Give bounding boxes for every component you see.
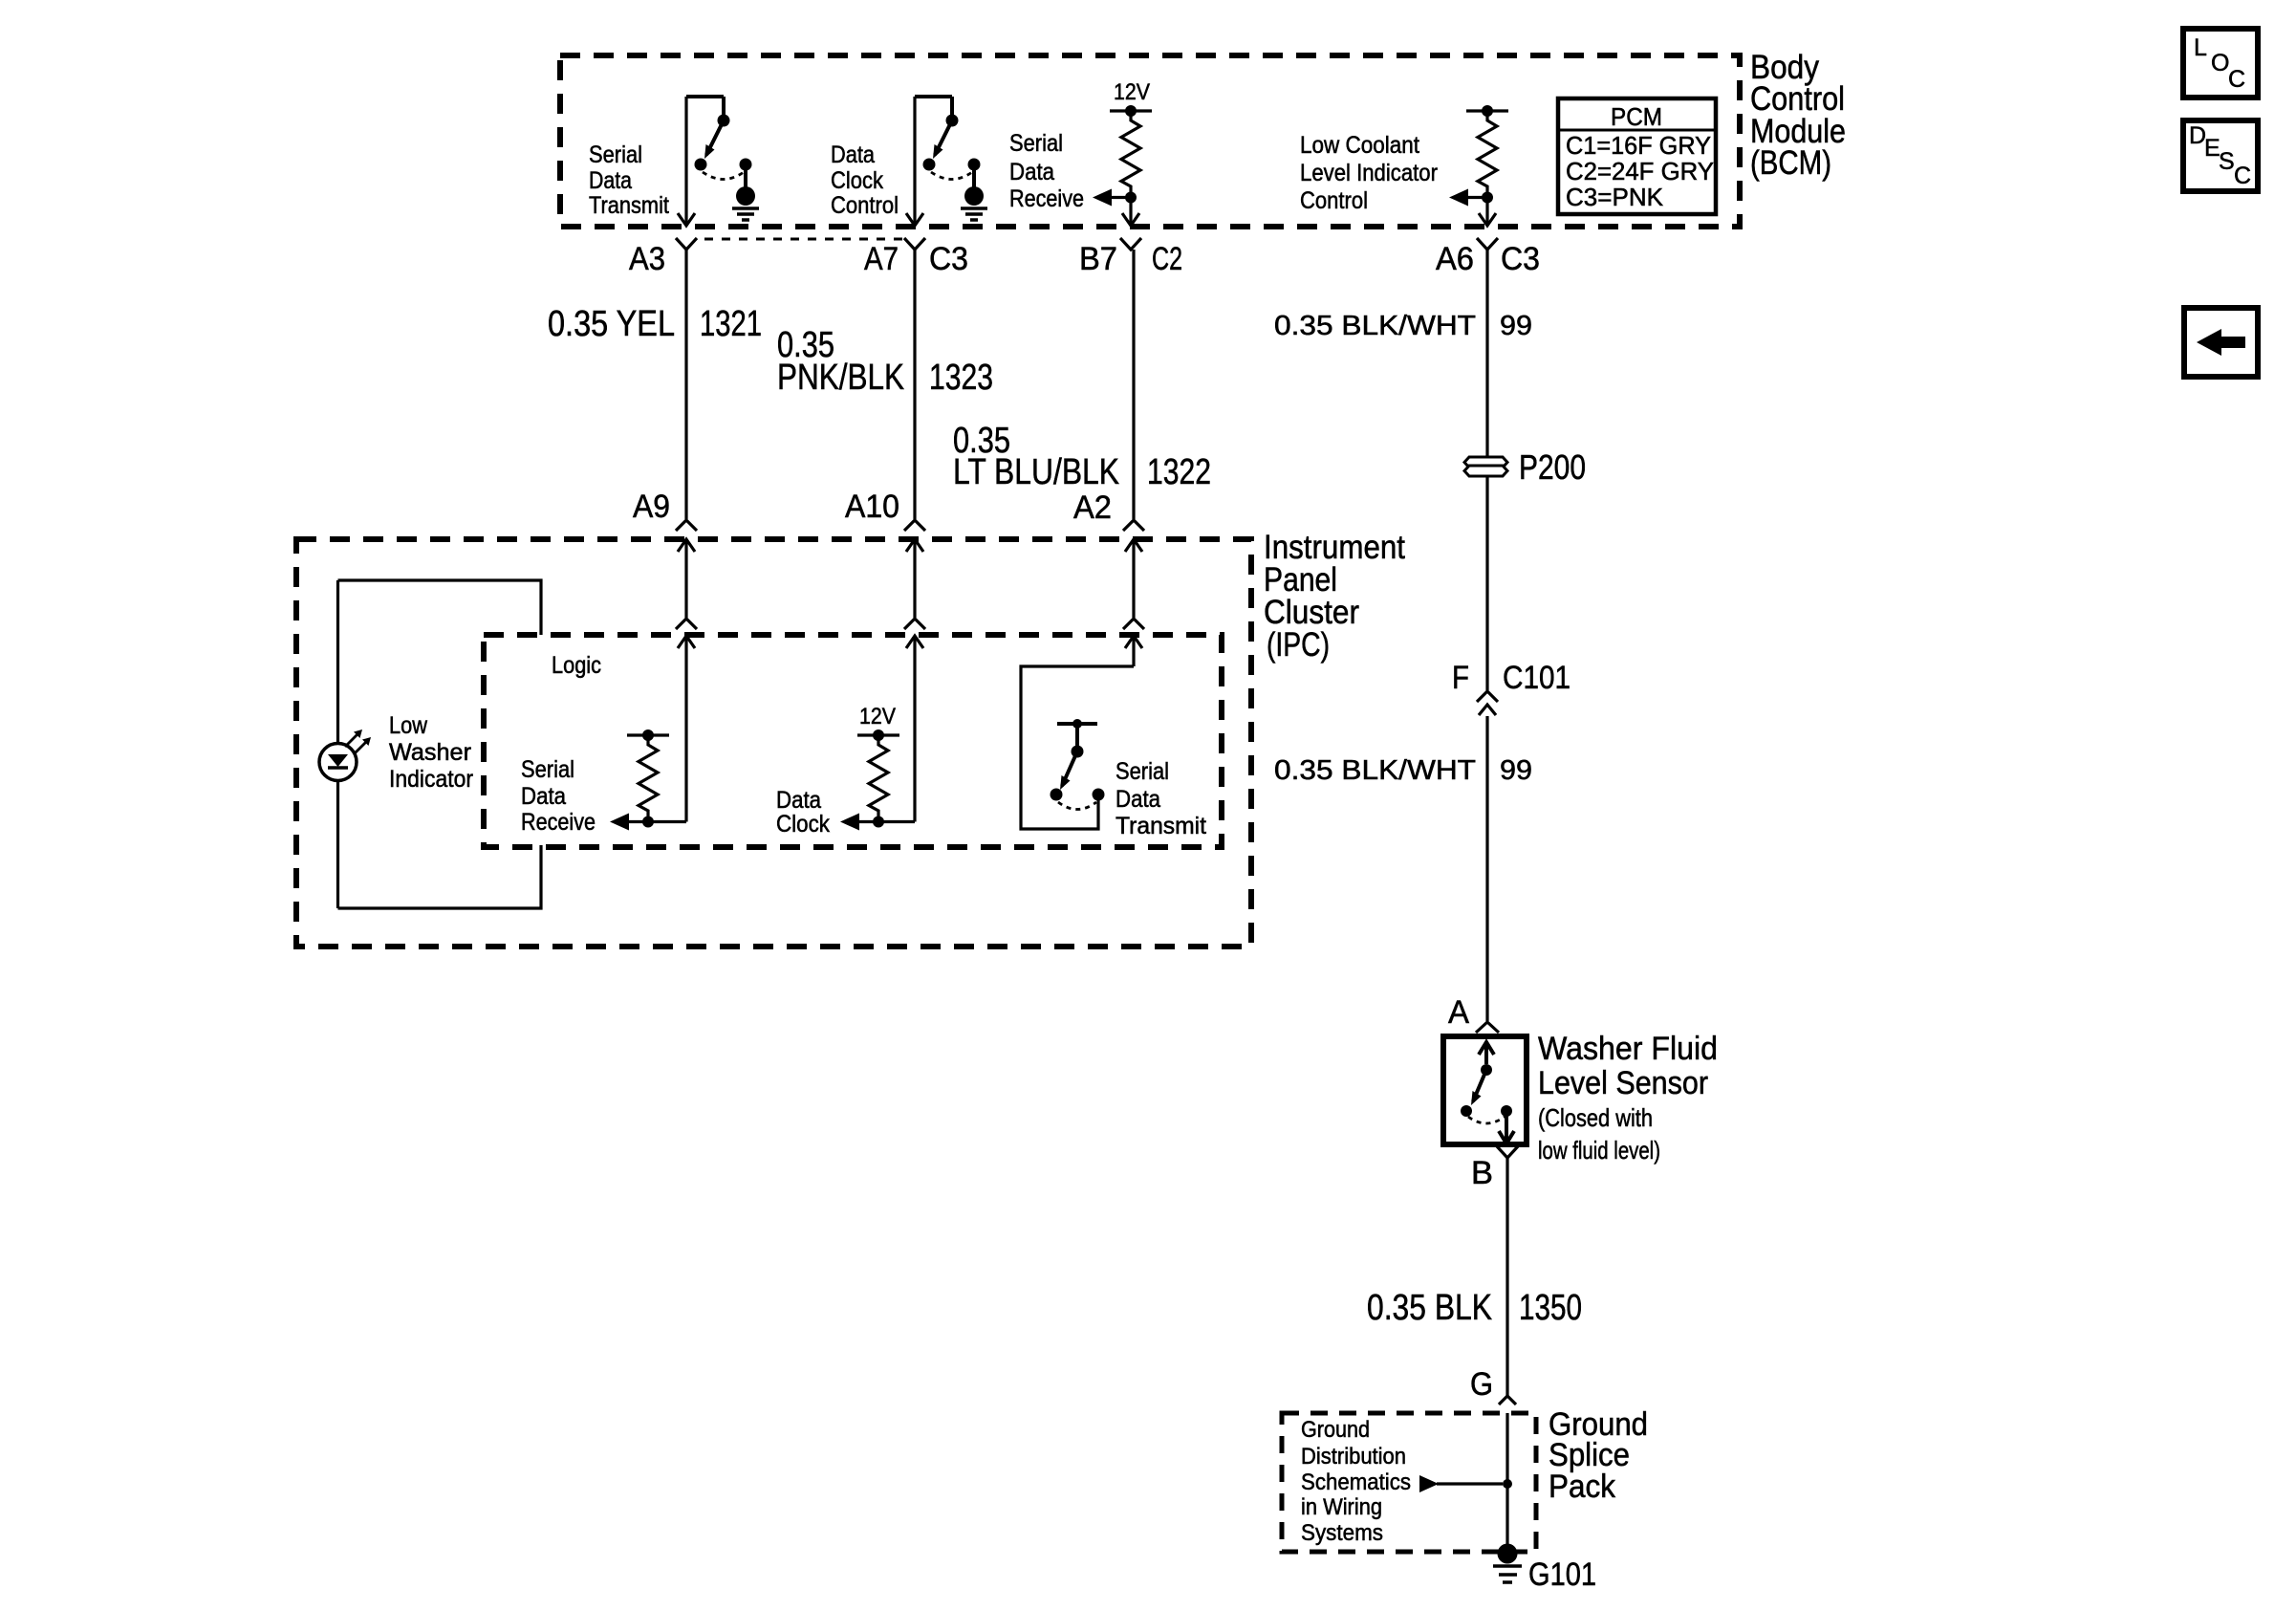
svg-text:C2=24F GRY: C2=24F GRY (1566, 157, 1714, 185)
svg-text:Ground: Ground (1301, 1417, 1370, 1443)
svg-text:Pack: Pack (1549, 1469, 1616, 1505)
svg-text:Control: Control (1300, 187, 1368, 214)
svg-text:F: F (1452, 660, 1469, 696)
svg-text:(Closed with: (Closed with (1538, 1103, 1653, 1132)
svg-text:Data: Data (776, 787, 821, 814)
svg-text:Level Sensor: Level Sensor (1538, 1065, 1708, 1101)
svg-text:(BCM): (BCM) (1750, 144, 1831, 182)
svg-text:L: L (2194, 34, 2207, 61)
svg-text:0.35 YEL: 0.35 YEL (548, 304, 675, 344)
svg-text:0.35 BLK/WHT: 0.35 BLK/WHT (1274, 755, 1476, 786)
svg-text:G101: G101 (1528, 1557, 1596, 1593)
svg-text:1322: 1322 (1147, 452, 1211, 492)
svg-text:C101: C101 (1503, 660, 1570, 696)
svg-text:O: O (2211, 50, 2229, 76)
svg-text:Logic: Logic (552, 652, 601, 679)
svg-text:Receive: Receive (1009, 185, 1084, 212)
svg-text:Clock: Clock (831, 167, 883, 194)
svg-text:Distribution: Distribution (1301, 1444, 1406, 1469)
svg-text:C3=PNK: C3=PNK (1566, 183, 1664, 211)
svg-text:Clock: Clock (776, 811, 830, 838)
svg-text:Serial: Serial (521, 756, 574, 783)
svg-text:Serial: Serial (589, 142, 642, 168)
svg-text:Transmit: Transmit (1116, 813, 1206, 839)
svg-text:Low: Low (389, 712, 428, 739)
svg-text:12V: 12V (859, 704, 896, 729)
svg-text:0.35 BLK: 0.35 BLK (1367, 1288, 1492, 1328)
svg-text:Washer Fluid: Washer Fluid (1538, 1031, 1718, 1067)
svg-text:G: G (1470, 1366, 1493, 1403)
svg-text:A10: A10 (845, 489, 899, 525)
svg-text:Data: Data (1116, 786, 1160, 813)
svg-text:Serial: Serial (1116, 758, 1169, 785)
svg-text:Systems: Systems (1301, 1520, 1383, 1546)
svg-text:12V: 12V (1114, 79, 1150, 105)
svg-text:C3: C3 (1501, 241, 1540, 277)
svg-text:C: C (2228, 66, 2245, 93)
svg-text:0.35 BLK/WHT: 0.35 BLK/WHT (1274, 311, 1476, 341)
svg-text:C3: C3 (929, 241, 968, 277)
svg-text:(IPC): (IPC) (1267, 626, 1330, 664)
svg-text:A9: A9 (633, 489, 670, 525)
svg-text:Schematics: Schematics (1301, 1469, 1411, 1495)
svg-text:A6: A6 (1436, 241, 1474, 277)
svg-text:99: 99 (1500, 311, 1532, 341)
svg-text:Data: Data (831, 142, 875, 168)
svg-text:1323: 1323 (929, 358, 993, 398)
svg-text:B: B (1471, 1155, 1493, 1191)
svg-text:1350: 1350 (1519, 1288, 1582, 1328)
svg-text:PCM: PCM (1611, 102, 1662, 131)
svg-text:Washer: Washer (389, 739, 471, 766)
svg-text:C1=16F GRY: C1=16F GRY (1566, 131, 1711, 160)
svg-text:Indicator: Indicator (389, 766, 473, 793)
svg-text:A7: A7 (864, 241, 899, 277)
svg-text:A2: A2 (1073, 490, 1112, 526)
svg-text:99: 99 (1500, 755, 1532, 786)
svg-text:C2: C2 (1152, 241, 1182, 277)
svg-text:P200: P200 (1519, 447, 1586, 487)
svg-text:1321: 1321 (700, 304, 762, 344)
svg-text:Data: Data (1009, 159, 1054, 185)
svg-text:Level Indicator: Level Indicator (1300, 160, 1438, 186)
svg-text:low fluid level): low fluid level) (1538, 1136, 1660, 1165)
svg-text:in Wiring: in Wiring (1301, 1494, 1382, 1520)
svg-text:B7: B7 (1079, 241, 1117, 277)
svg-text:A3: A3 (629, 241, 665, 277)
svg-text:Transmit: Transmit (589, 192, 669, 219)
svg-text:Receive: Receive (521, 809, 596, 836)
svg-text:Low Coolant: Low Coolant (1300, 132, 1419, 159)
svg-text:Data: Data (521, 783, 566, 810)
svg-text:Control: Control (831, 192, 899, 219)
svg-text:A: A (1448, 994, 1469, 1031)
svg-text:C: C (2234, 163, 2251, 189)
svg-text:S: S (2219, 148, 2235, 175)
svg-text:PNK/BLK: PNK/BLK (777, 358, 904, 398)
svg-text:Serial: Serial (1009, 130, 1063, 157)
svg-text:LT BLU/BLK: LT BLU/BLK (953, 452, 1119, 492)
svg-text:Data: Data (589, 167, 632, 194)
